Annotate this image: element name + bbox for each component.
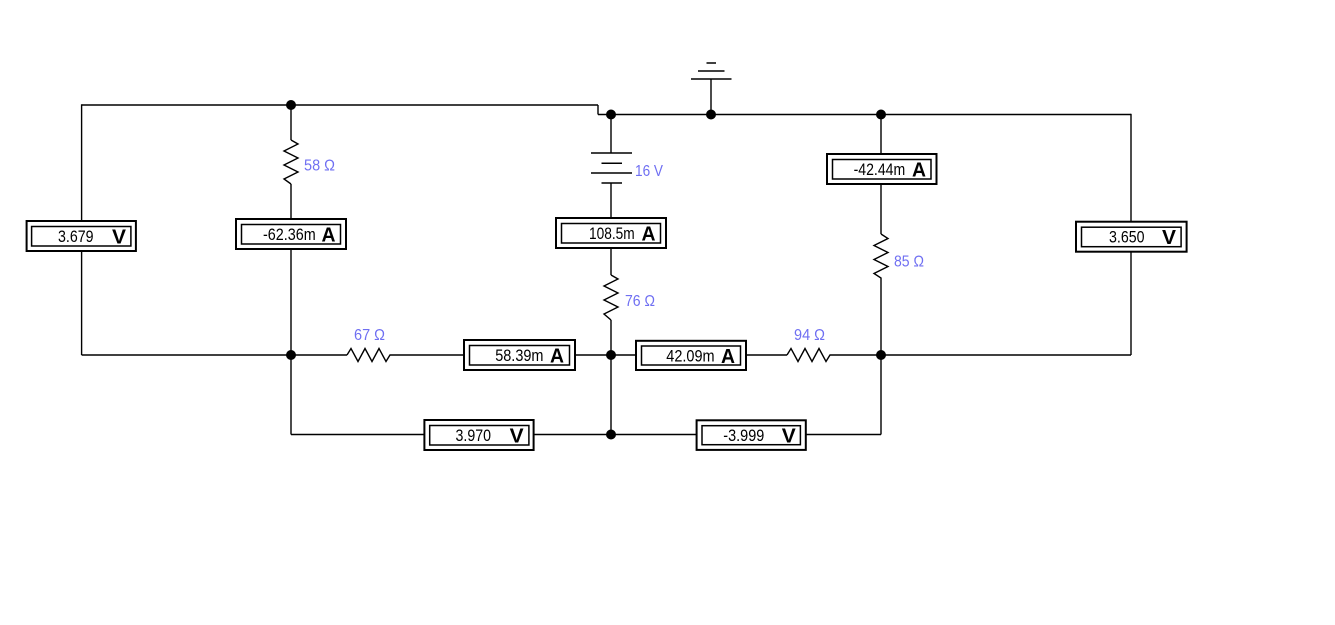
svg-text:A: A [550, 345, 564, 368]
wire: bottom-right corner up to node F [880, 355, 882, 435]
svg-text:85 Ω: 85 Ω [894, 254, 924, 271]
wire: main top rail [598, 114, 1131, 116]
svg-text:A: A [642, 223, 656, 246]
wire: resistor R3 to node D [610, 320, 612, 355]
ground stub wire [710, 79, 712, 115]
wire: voltmeter M9 to bottom-right corner [806, 434, 881, 436]
node A junction dot (x=291 top rail) [286, 100, 296, 110]
svg-text:V: V [112, 226, 126, 249]
wire: bottom-right horizontal corner to node F [881, 354, 1131, 356]
ammeter M4 (-42.44m A) [827, 154, 937, 184]
ammeter M2 (-62.36m A) [236, 219, 346, 249]
svg-text:42.09m: 42.09m [666, 348, 714, 366]
resistor R4 94 ohm (horizontal) [787, 349, 833, 362]
battery V1 16 V [591, 153, 632, 183]
svg-text:A: A [912, 159, 926, 182]
wire: right vertical lower (voltmeter M5 to corner) [1130, 252, 1132, 355]
svg-text:V: V [510, 425, 524, 448]
label R1 value 58 Ω [304, 158, 335, 175]
svg-text:16 V: 16 V [635, 163, 663, 180]
label R5 value 85 Ω [894, 254, 924, 271]
node B junction dot [286, 350, 296, 360]
wire: node C to battery V1 [610, 115, 612, 153]
wire: bottom-left horizontal to node B [82, 354, 291, 356]
voltmeter M8 (3.970 V) [424, 420, 533, 450]
resistor R5 85 ohm (vertical) [874, 234, 888, 283]
svg-text:58 Ω: 58 Ω [304, 158, 335, 175]
wire: step between top-left and main top rail [597, 105, 599, 115]
node C junction dot (battery branch, top rail) [606, 110, 616, 120]
wire: node G to voltmeter M9 [611, 434, 697, 436]
wire: node B down to bottom row [290, 355, 292, 435]
label V1 value 16 V [635, 163, 663, 180]
wire: ammeter M7 to resistor R4 [746, 354, 787, 356]
node F junction dot [876, 350, 886, 360]
wire: left vertical lower (from voltmeter M1) [81, 251, 83, 355]
ammeter M3 (108.5m A) [556, 218, 666, 248]
svg-text:76 Ω: 76 Ω [625, 293, 655, 310]
svg-text:-42.44m: -42.44m [854, 161, 906, 179]
label R3 value 76 Ω [625, 293, 655, 310]
svg-text:A: A [721, 345, 735, 368]
svg-text:67 Ω: 67 Ω [354, 327, 385, 344]
wire: battery V1 to ammeter M3 [610, 183, 612, 218]
resistor R2 67 ohm (horizontal) [347, 349, 393, 362]
wire: ammeter M2 to node B [290, 249, 292, 355]
label R2 value 67 Ω [354, 327, 385, 344]
wire: resistor R5 to node F [880, 283, 882, 355]
wire: node D to ammeter M7 [611, 354, 636, 356]
voltmeter M5 (3.650 V) [1076, 222, 1187, 252]
wire: bottom row left horizontal to voltmeter M8 [291, 434, 424, 436]
wire: voltmeter M8 to node G [534, 434, 611, 436]
wire: left vertical upper (to voltmeter M1) [81, 104, 83, 221]
svg-text:3.970: 3.970 [456, 427, 492, 445]
ground symbol [691, 63, 732, 79]
wire: branch x=291 from node A to resistor R1 [290, 105, 292, 140]
wire: top-left horizontal segment [82, 104, 598, 106]
wire: ammeter M6 to node D [575, 354, 611, 356]
wire: node D down to node G [610, 355, 612, 435]
wire: right vertical upper (to voltmeter M5) [1130, 114, 1132, 222]
svg-text:3.679: 3.679 [58, 228, 94, 246]
svg-text:V: V [782, 425, 796, 448]
svg-text:-3.999: -3.999 [723, 427, 764, 445]
wire: ammeter M3 to resistor R3 [610, 248, 612, 275]
node D junction dot [606, 350, 616, 360]
ground node junction dot [706, 110, 716, 120]
svg-text:A: A [322, 224, 336, 247]
node E junction dot (x=881 top rail) [876, 110, 886, 120]
svg-text:108.5m: 108.5m [589, 225, 635, 243]
wire: node B to resistor R2 [291, 354, 347, 356]
resistor R3 76 ohm (vertical) [604, 275, 618, 320]
node G junction dot [606, 430, 616, 440]
wire: ammeter M4 to resistor R5 [880, 184, 882, 234]
svg-text:58.39m: 58.39m [495, 347, 543, 365]
ammeter M6 (58.39m A) [464, 340, 575, 370]
resistor R1 58 ohm (vertical) [284, 140, 298, 184]
wire: node E to ammeter M4 [880, 115, 882, 155]
wire: resistor R1 to ammeter M2 [290, 184, 292, 219]
wire: resistor R4 to node F [833, 354, 881, 356]
voltmeter M1 (3.679 V) [27, 221, 136, 251]
voltmeter M9 (-3.999 V) [697, 420, 806, 450]
wire: resistor R2 to ammeter M6 [393, 354, 464, 356]
svg-text:94 Ω: 94 Ω [794, 327, 825, 344]
svg-text:3.650: 3.650 [1109, 229, 1145, 247]
svg-text:-62.36m: -62.36m [263, 226, 316, 244]
ammeter M7 (42.09m A) [636, 341, 746, 370]
label R4 value 94 Ω [794, 327, 825, 344]
svg-text:V: V [1162, 226, 1176, 249]
